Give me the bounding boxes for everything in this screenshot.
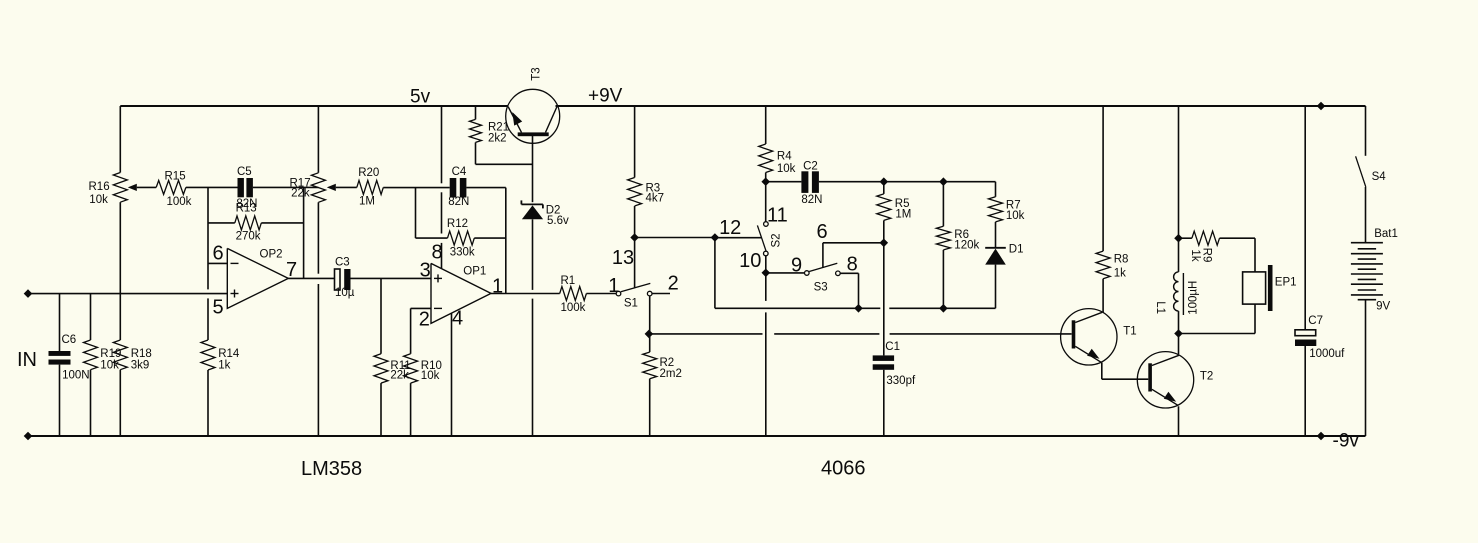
value 100uH	[1188, 281, 1200, 315]
label OP1	[463, 266, 486, 278]
label R7	[1006, 200, 1021, 212]
value 1000uf	[1309, 348, 1345, 360]
svg-text:R16: R16	[89, 181, 110, 193]
wiper arrow of R17	[327, 184, 357, 191]
node junction R6 top	[939, 177, 948, 186]
svg-text:C3: C3	[335, 257, 350, 269]
svg-text:8: 8	[847, 253, 858, 275]
wire R20 to C4	[383, 187, 449, 189]
resistor R1	[560, 287, 587, 301]
value 5.6v	[547, 215, 569, 227]
resistor R12	[448, 231, 475, 245]
node junction pin8 net	[854, 304, 863, 313]
wire 13 control to S1 lever	[634, 238, 636, 289]
svg-text:2: 2	[419, 308, 430, 330]
resistor R7	[989, 182, 1003, 248]
label R18	[131, 348, 152, 360]
minus sign OP1	[434, 307, 442, 309]
svg-text:R15: R15	[165, 171, 186, 183]
value 10u	[335, 287, 355, 299]
svg-text:100k: 100k	[167, 196, 192, 208]
value 100k (R15)	[167, 196, 192, 208]
svg-text:1: 1	[608, 275, 619, 297]
capacitor C6	[49, 294, 71, 436]
wire R1 to S1	[586, 293, 616, 295]
label R17	[290, 178, 311, 190]
switch S4	[1356, 106, 1366, 243]
wire S1-R2 node vertical	[649, 296, 651, 334]
svg-text:1000uf: 1000uf	[1309, 348, 1345, 360]
svg-text:11: 11	[767, 205, 788, 227]
net label 5v	[410, 87, 431, 108]
resistor R2	[643, 334, 657, 436]
label R16	[89, 181, 110, 193]
value 82N (C2)	[801, 194, 822, 206]
node junction 12	[711, 233, 720, 242]
svg-text:3k9: 3k9	[131, 359, 150, 371]
label D2	[546, 205, 561, 217]
inductor L1	[1174, 238, 1184, 333]
wire OP1 pin8 supply	[441, 106, 443, 269]
svg-text:1k: 1k	[1189, 249, 1201, 261]
svg-text:C1: C1	[885, 341, 900, 353]
resistor R20	[357, 180, 384, 194]
capacitor C7	[1295, 106, 1316, 436]
wire D1 to control net	[995, 265, 997, 309]
pin 2 OP1	[419, 308, 430, 330]
op-amp OP1	[431, 263, 491, 323]
label L1	[1154, 301, 1166, 314]
pin 1 S1	[608, 275, 619, 297]
svg-text:OP2: OP2	[260, 249, 283, 261]
wire R5node to R7 corner	[884, 181, 996, 183]
svg-text:10k: 10k	[421, 370, 440, 382]
wire T2 emitter to ground	[1178, 406, 1180, 436]
value 330pf	[886, 375, 916, 387]
label R9	[1201, 248, 1213, 263]
value 2k2	[488, 133, 507, 145]
battery Bat1	[1351, 243, 1383, 300]
wire OP1 pin2 input	[411, 307, 431, 309]
resistor R16 (pot)	[113, 173, 127, 203]
label D1	[1009, 244, 1024, 256]
pin 11	[767, 205, 788, 227]
label S1	[624, 298, 638, 310]
wire R17 bottom to ground rail	[317, 202, 319, 436]
wire R21 to T3 base	[476, 163, 533, 165]
svg-text:330pf: 330pf	[886, 375, 916, 387]
svg-text:2m2: 2m2	[660, 368, 682, 380]
label R3	[646, 183, 661, 195]
label R21	[488, 122, 509, 134]
wire bottom rail (-9v ground)	[28, 435, 1366, 437]
wire T3 base down	[532, 136, 534, 202]
node ground terminal left	[24, 432, 33, 441]
value 10k (R4)	[777, 163, 796, 175]
label R5	[895, 198, 910, 210]
svg-text:C5: C5	[237, 166, 252, 178]
wire R15 to C5	[186, 186, 238, 188]
switch S2	[757, 222, 768, 256]
wire S2 bottom to node 9	[765, 256, 767, 273]
label R6	[954, 229, 969, 241]
wire node13 to node12	[635, 237, 715, 239]
wire R13 right	[261, 222, 303, 224]
node junction 9	[762, 269, 771, 278]
label C6	[62, 334, 77, 346]
node junction R5/node6	[880, 239, 889, 248]
value 22k (R17)	[291, 187, 310, 199]
svg-text:R4: R4	[777, 151, 792, 163]
value 82N (C5)	[236, 198, 257, 210]
value 10k (R10)	[421, 370, 440, 382]
svg-text:R8: R8	[1114, 254, 1129, 266]
wire node9 to S3	[766, 272, 805, 274]
label R14	[218, 348, 240, 360]
label T2	[1200, 371, 1213, 383]
value 270k	[236, 230, 261, 242]
svg-text:S3: S3	[814, 282, 828, 294]
label C5	[237, 166, 252, 178]
label R8	[1114, 254, 1129, 266]
svg-text:2: 2	[668, 272, 679, 294]
label T3	[531, 67, 543, 80]
label R10	[421, 360, 442, 372]
svg-text:4066: 4066	[821, 458, 866, 480]
wire R9 left	[1179, 237, 1192, 239]
capacitor C5	[238, 178, 253, 197]
node junction top rail marker	[1317, 102, 1326, 111]
label OP2	[260, 249, 283, 261]
switch S3	[805, 263, 841, 275]
wire 6 control to S3 lever	[822, 243, 824, 268]
wire T1 emitter to T2 base	[1102, 363, 1149, 380]
wire C3 to OP1 pin3	[351, 277, 432, 279]
pin 9	[791, 255, 802, 277]
svg-text:S1: S1	[624, 298, 638, 310]
wire S3 pin8 to node	[840, 273, 858, 308]
op-amp OP2	[227, 248, 288, 308]
svg-text:100N: 100N	[62, 369, 90, 381]
svg-text:12: 12	[719, 217, 741, 239]
wire C2 to R5 node	[819, 181, 884, 183]
svg-text:10k: 10k	[777, 163, 796, 175]
switch S1	[616, 283, 652, 296]
svg-text:1k: 1k	[218, 359, 230, 371]
pin 12	[719, 217, 741, 239]
value 1k (R14)	[218, 359, 230, 371]
label S4	[1372, 171, 1387, 183]
wire feedback vertical OP1	[505, 188, 507, 294]
wire OP2 output	[288, 277, 334, 279]
wire C4 to feedback corner	[466, 187, 505, 189]
value 1M (R5)	[895, 208, 911, 220]
wire input line	[28, 293, 227, 295]
wire node to S2 top contact	[765, 182, 767, 222]
svg-text:13: 13	[612, 247, 634, 269]
wire R13 left	[208, 222, 235, 224]
value 22k (R11)	[390, 370, 409, 382]
resistor R17 (pot) line top	[317, 106, 319, 173]
node junction R4/C2	[761, 177, 770, 186]
svg-text:270k: 270k	[236, 230, 261, 242]
svg-text:22k: 22k	[291, 187, 310, 199]
node junction S1/R2	[645, 330, 654, 339]
node junction R6 bottom	[939, 304, 948, 313]
svg-text:5: 5	[212, 296, 223, 318]
wire S1 pin2 stub	[652, 293, 670, 295]
wire C5 to R17	[253, 186, 319, 188]
wire T2 collector up	[1178, 334, 1180, 355]
svg-text:82N: 82N	[448, 196, 469, 208]
svg-text:3: 3	[420, 259, 431, 281]
svg-text:82N: 82N	[801, 194, 822, 206]
value 100k (R1)	[561, 302, 586, 314]
svg-text:R20: R20	[358, 167, 379, 179]
plus sign OP1	[434, 274, 442, 282]
pin 5 OP2	[212, 296, 223, 318]
svg-text:L1: L1	[1154, 301, 1166, 314]
pin 3 OP1	[420, 259, 431, 281]
capacitor C3	[335, 269, 351, 290]
svg-text:C7: C7	[1308, 315, 1323, 327]
wiper arrow of R16	[128, 184, 156, 191]
resistor R21	[470, 106, 482, 164]
svg-text:R12: R12	[447, 218, 468, 230]
resistor R10	[404, 308, 418, 436]
label R11	[390, 360, 410, 372]
label C2	[803, 161, 818, 173]
value 330k	[450, 247, 475, 259]
plus sign OP2	[231, 290, 239, 298]
value 100N	[62, 369, 90, 381]
svg-text:1M: 1M	[359, 195, 375, 207]
capacitor C1	[873, 355, 894, 436]
svg-text:LM358: LM358	[301, 458, 362, 480]
svg-text:10k: 10k	[89, 194, 108, 206]
wire R20 node down to R12	[415, 188, 417, 239]
value 3k9	[131, 359, 150, 371]
label R12	[447, 218, 468, 230]
label EP1	[1275, 277, 1297, 289]
svg-text:R13: R13	[236, 202, 257, 214]
net label IN	[17, 349, 37, 371]
label C1	[885, 341, 900, 353]
label R2	[660, 357, 675, 369]
label R19	[100, 348, 121, 360]
label R20	[358, 167, 379, 179]
wire node12 down	[714, 238, 716, 309]
value 10k (R7)	[1006, 210, 1025, 222]
svg-text:10: 10	[739, 250, 761, 272]
label Bat1	[1374, 228, 1398, 240]
pin 6 OP2	[212, 242, 223, 264]
svg-text:S2: S2	[771, 233, 783, 247]
wire left branch vertical	[119, 106, 121, 173]
svg-text:R9: R9	[1201, 248, 1213, 263]
label S3	[814, 282, 828, 294]
pin 2 S1	[668, 272, 679, 294]
wire R12 right	[474, 237, 506, 239]
node junction L1/R9	[1174, 234, 1183, 243]
pin 8 S3	[847, 253, 858, 275]
wire feedback vertical OP2	[303, 187, 305, 278]
label C7	[1308, 315, 1323, 327]
label C4	[452, 166, 467, 178]
svg-text:T2: T2	[1200, 371, 1213, 383]
resistor R3	[628, 106, 642, 206]
wire R4 node to C2	[766, 181, 802, 183]
svg-text:120k: 120k	[954, 239, 979, 251]
svg-text:22k: 22k	[390, 370, 409, 382]
wire output to T1 base	[649, 333, 1072, 335]
wire L1 branch from rail	[1178, 106, 1180, 238]
label T1	[1123, 325, 1136, 337]
svg-text:6: 6	[816, 221, 827, 243]
svg-text:100k: 100k	[561, 302, 586, 314]
label C3	[335, 257, 350, 269]
svg-text:330k: 330k	[450, 247, 475, 259]
resistor R8	[1096, 106, 1110, 313]
value 2m2	[660, 368, 682, 380]
svg-text:IN: IN	[17, 349, 37, 371]
pin 6 S3	[816, 221, 827, 243]
svg-text:6: 6	[212, 242, 223, 264]
resistor R6	[936, 182, 950, 309]
resistor R19	[84, 294, 98, 436]
svg-text:C4: C4	[452, 166, 467, 178]
value 1k (R9)	[1189, 249, 1201, 261]
wire OP1 output	[491, 293, 560, 295]
wire R3 to node 13	[634, 206, 636, 238]
transistor T2	[1137, 352, 1193, 408]
IC label LM358	[301, 458, 362, 480]
minus sign OP2	[231, 262, 239, 264]
net label -9v	[1333, 431, 1360, 452]
wire S2 node to ground	[765, 273, 767, 436]
diode D2 (zener)	[521, 200, 543, 219]
wire 12 control to S2 lever	[715, 237, 762, 239]
node junction L1/T2/EP1	[1174, 329, 1183, 338]
pin 10	[739, 250, 761, 272]
label R1	[561, 275, 576, 287]
svg-text:4k7: 4k7	[646, 192, 665, 204]
svg-text:100µH: 100µH	[1188, 281, 1200, 315]
label R4	[777, 151, 792, 163]
node junction bottom rail marker	[1317, 432, 1326, 441]
pin 1 OP1	[492, 276, 503, 298]
speaker EP1	[1243, 265, 1273, 311]
IC label 4066	[821, 458, 866, 480]
svg-text:2k2: 2k2	[488, 133, 507, 145]
resistor R4	[759, 106, 773, 182]
resistor R9	[1192, 231, 1220, 245]
value 1M (R20)	[359, 195, 375, 207]
resistor R5	[877, 182, 891, 243]
wire inverting node vertical OP2	[207, 187, 209, 340]
svg-text:S4: S4	[1372, 171, 1387, 183]
svg-text:+9V: +9V	[588, 86, 623, 107]
svg-text:T1: T1	[1123, 325, 1136, 337]
node junction 13	[630, 233, 639, 242]
value 10k (R19)	[100, 359, 119, 371]
value 4k7	[646, 192, 665, 204]
svg-text:Bat1: Bat1	[1374, 228, 1398, 240]
svg-text:4: 4	[452, 307, 463, 329]
wire R5 node down to C1	[883, 243, 885, 356]
value 82N (C4)	[448, 196, 469, 208]
value 10k (R16)	[89, 194, 108, 206]
svg-text:C2: C2	[803, 161, 818, 173]
svg-text:5v: 5v	[410, 87, 431, 108]
wire OP2 pin6 input	[208, 262, 227, 264]
svg-text:D1: D1	[1009, 244, 1024, 256]
resistor R14	[201, 340, 215, 436]
capacitor C4	[450, 178, 467, 198]
pin 8 OP1	[431, 241, 442, 263]
svg-text:C6: C6	[62, 334, 77, 346]
label R13	[236, 202, 257, 214]
capacitor C2	[801, 171, 819, 193]
wire battery minus to ground rail	[1365, 300, 1367, 436]
pin 13	[612, 247, 634, 269]
svg-text:1M: 1M	[895, 208, 911, 220]
svg-text:10µ: 10µ	[335, 287, 355, 299]
resistor R11	[374, 278, 388, 436]
diode D1	[985, 248, 1006, 265]
wire node6 horizontal	[823, 242, 884, 244]
net label +9V	[588, 86, 623, 107]
wire OP1 pin4 to ground	[451, 313, 453, 436]
resistor R18	[113, 294, 127, 436]
wire R9 right to EP1	[1220, 238, 1256, 272]
svg-text:-9v: -9v	[1333, 431, 1360, 452]
wire top supply rail left segment (5v)	[120, 105, 508, 107]
svg-text:1k: 1k	[1114, 267, 1126, 279]
transistor T1	[1061, 309, 1117, 365]
label R15	[165, 171, 186, 183]
svg-text:9V: 9V	[1376, 301, 1390, 313]
value 9V	[1376, 301, 1390, 313]
svg-text:R1: R1	[561, 275, 576, 287]
node IN terminal (input)	[24, 289, 33, 298]
pin 7 OP2	[286, 259, 297, 281]
wire EP1 bottom	[1179, 304, 1256, 333]
wire control net horizontal	[715, 307, 996, 309]
value 1k (R8)	[1114, 267, 1126, 279]
label S2	[771, 233, 783, 247]
svg-text:OP1: OP1	[463, 266, 486, 278]
resistor R15	[156, 180, 186, 194]
pin 4 OP1	[452, 307, 463, 329]
svg-text:5.6v: 5.6v	[547, 215, 569, 227]
svg-text:10k: 10k	[1006, 210, 1025, 222]
wire D2 anode to ground	[532, 219, 534, 436]
wire R16 to input line	[119, 202, 121, 293]
resistor R17 (pot)	[311, 173, 325, 203]
node junction R5/C2	[880, 177, 889, 186]
wire top supply rail right segment (+9V)	[556, 105, 1366, 107]
svg-text:EP1: EP1	[1275, 277, 1297, 289]
wire R12 left	[416, 237, 448, 239]
resistor R13	[235, 216, 261, 230]
transistor T3	[506, 89, 560, 143]
svg-text:1: 1	[492, 276, 503, 298]
svg-text:T3: T3	[531, 67, 543, 80]
value 120k	[954, 239, 979, 251]
